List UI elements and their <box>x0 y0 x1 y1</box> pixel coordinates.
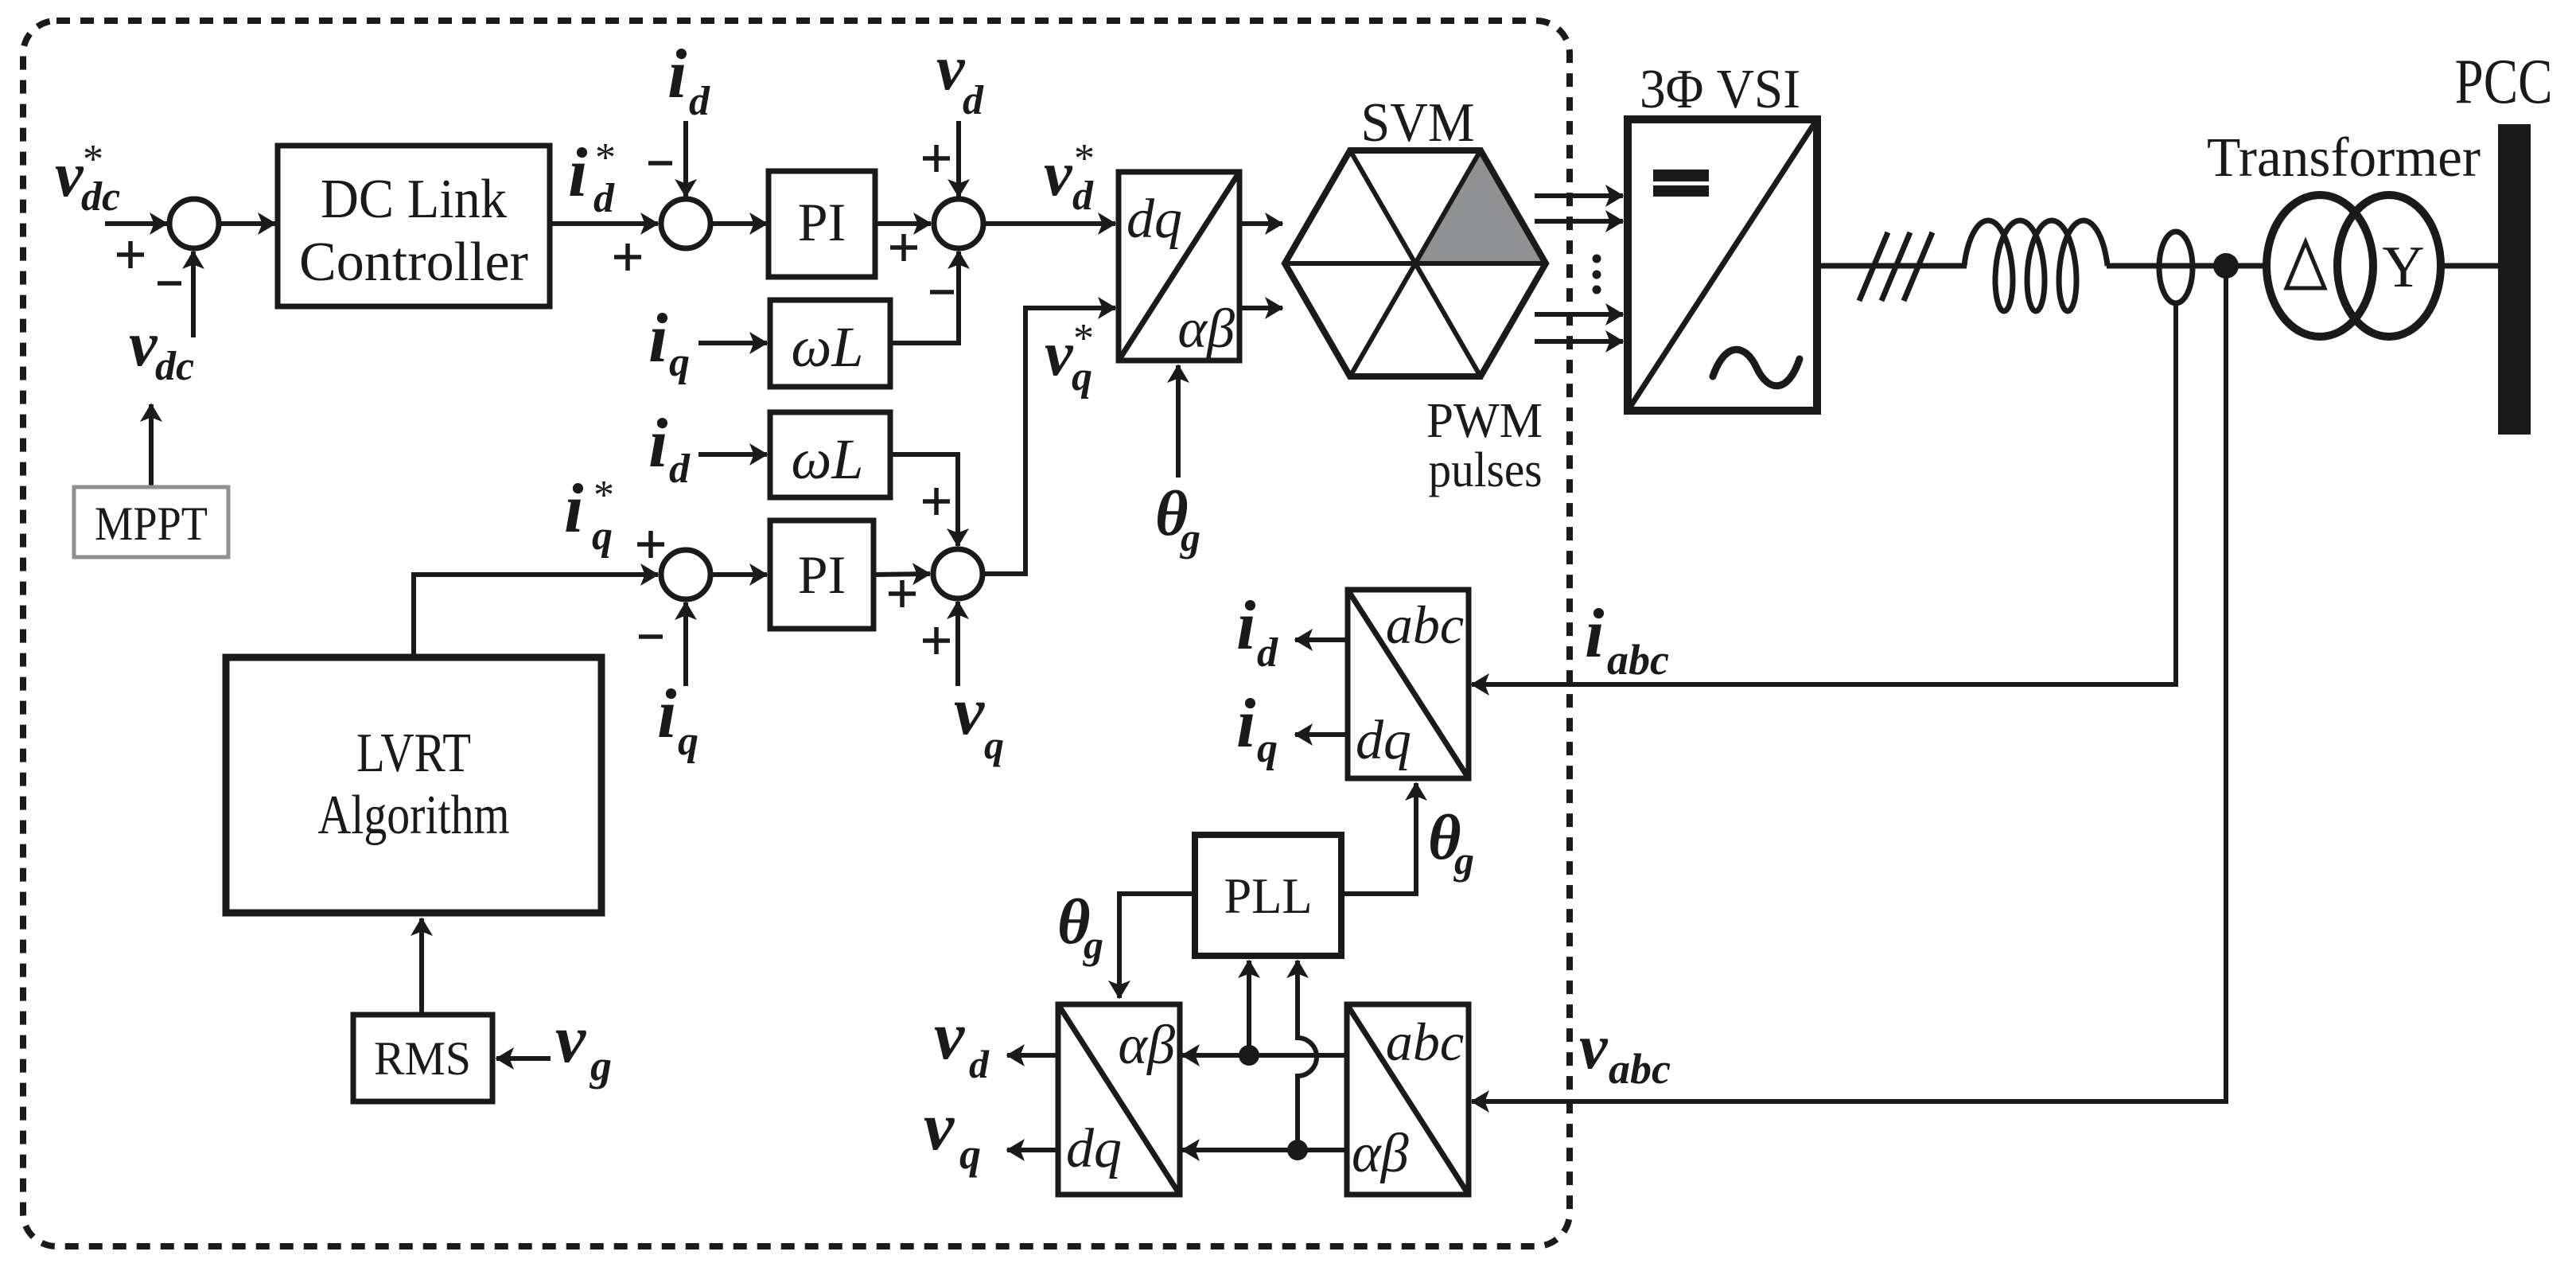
plus sign at S5 wL <box>923 488 950 515</box>
wire ab link top between voltage transforms <box>1182 1053 1347 1058</box>
node junction B (vbeta tap to PLL) <box>1287 1140 1308 1160</box>
wire id into wL2 <box>698 452 767 457</box>
svg-text:i: i <box>657 676 677 753</box>
label vd output <box>934 997 990 1086</box>
label vq output <box>924 1088 981 1178</box>
svg-text:Controller: Controller <box>299 232 528 293</box>
label id output <box>1236 587 1278 676</box>
plus sign at S2 <box>614 244 641 271</box>
block RMS <box>353 1015 492 1101</box>
label v*dc <box>55 137 120 220</box>
svg-text:g: g <box>1453 838 1474 883</box>
svg-text:MPPT: MPPT <box>95 497 208 550</box>
svg-text:i: i <box>564 470 584 548</box>
block wL d-coupling <box>770 412 890 497</box>
minus sign at S2 <box>648 161 672 166</box>
wire iq output of abc/dq <box>1295 732 1348 737</box>
summing node S4 <box>661 550 710 599</box>
svg-text:d: d <box>1257 630 1278 676</box>
svg-text:g: g <box>1083 922 1103 967</box>
wire PLL theta-g to ab/dq transform <box>1119 894 1195 998</box>
minus sign at S1 <box>158 281 181 286</box>
SVM hexagon <box>1285 150 1546 376</box>
svg-text:3Φ VSI: 3Φ VSI <box>1640 59 1800 120</box>
wire S2 to PI <box>712 221 767 226</box>
plus sign at S4 <box>637 531 664 558</box>
svg-text:PI: PI <box>798 192 846 252</box>
plus sign at S5 vq <box>923 627 950 654</box>
svg-text:i: i <box>568 134 588 212</box>
wire vq up into S5 <box>955 602 960 686</box>
svg-text:g: g <box>1180 515 1200 559</box>
label Transformer <box>2207 127 2481 189</box>
svg-text:dq: dq <box>1356 710 1411 771</box>
wire transformer to PCC bus <box>2441 263 2498 269</box>
label iq below S4 <box>657 676 698 764</box>
svg-text:g: g <box>590 1042 612 1090</box>
label id into wL2 <box>648 405 691 492</box>
wire vd down into S3 <box>956 121 961 197</box>
wire DC Link Controller to S2 (i*d) <box>550 221 658 226</box>
block LVRT Algorithm <box>226 657 601 913</box>
svg-text:*: * <box>83 137 103 182</box>
label theta-g below dq/ab <box>1155 479 1200 559</box>
svg-text:*: * <box>595 135 616 181</box>
svg-text:dq: dq <box>1127 189 1182 250</box>
block alpha-beta to dq voltage transform <box>1058 1004 1180 1195</box>
svg-text:PI: PI <box>798 544 846 605</box>
wire wL2 down into S5 <box>890 454 958 546</box>
svg-text:dq: dq <box>1066 1118 1122 1179</box>
svg-text:PLL: PLL <box>1224 867 1313 924</box>
wire vd output <box>1007 1053 1058 1058</box>
inductor coil <box>1964 220 2107 311</box>
summing node S5 <box>933 549 983 598</box>
svg-text:abc: abc <box>1386 1012 1464 1072</box>
svg-text:*: * <box>593 473 614 518</box>
block 3-phase VSI <box>1628 119 1817 411</box>
svg-text:Y: Y <box>2382 235 2424 300</box>
block PLL <box>1195 835 1341 956</box>
label 3-phi VSI <box>1640 59 1800 120</box>
svg-text:pulses: pulses <box>1429 443 1543 497</box>
svg-text:q: q <box>984 723 1004 767</box>
plus sign at S5 input <box>889 580 916 607</box>
svg-text:abc: abc <box>1386 595 1464 655</box>
label theta-g left of PLL <box>1057 887 1103 967</box>
label vdc <box>129 310 194 389</box>
node junction on grid wire (vabc tap) <box>2213 253 2239 279</box>
wire id output of abc/dq <box>1295 637 1348 642</box>
label vd top <box>936 33 984 123</box>
block dq to alpha-beta transform <box>1119 172 1239 361</box>
svg-text:abc: abc <box>1607 636 1669 684</box>
label vg <box>555 1000 612 1090</box>
svg-text:i: i <box>648 300 668 377</box>
wire dq/ab output 1 to SVM <box>1239 221 1282 226</box>
node junction A (valpha tap to PLL) <box>1239 1045 1259 1066</box>
summing node S1 <box>169 199 219 248</box>
svg-text:αβ: αβ <box>1352 1123 1409 1184</box>
wire vabc measurement to abc/ab transform <box>1472 266 2226 1101</box>
transformer wye winding <box>2337 195 2441 337</box>
svg-text:q: q <box>592 513 613 559</box>
svg-text:ωL: ωL <box>792 315 864 379</box>
wire ab link bottom between voltage transforms <box>1182 1148 1347 1152</box>
wire theta-g up into dq/ab transform <box>1176 365 1181 478</box>
wire S4 to PI2 <box>713 572 767 577</box>
svg-text:i: i <box>648 405 668 482</box>
svg-text:q: q <box>678 719 698 764</box>
wire junction B up into PLL with hop <box>1298 961 1317 1150</box>
svg-text:*: * <box>1073 316 1094 361</box>
wire v*dc input to summing node S1 <box>105 221 167 226</box>
plus sign at S3 input <box>890 234 917 261</box>
wire PWM pulse 3 <box>1535 312 1623 317</box>
svg-text:dc: dc <box>155 344 194 389</box>
svg-text:DC Link: DC Link <box>321 169 507 230</box>
svg-text:ωL: ωL <box>792 427 864 491</box>
label iq output <box>1236 685 1278 771</box>
svg-text:Algorithm: Algorithm <box>318 785 510 846</box>
svg-text:v: v <box>954 672 985 749</box>
svg-text:v: v <box>129 310 158 380</box>
svg-text:Transformer: Transformer <box>2207 127 2481 189</box>
wire LVRT to S4 (i*q) <box>414 575 658 657</box>
wire S3 to dq/ab transform (v*d) <box>985 221 1115 226</box>
wire PLL theta-g to abc/dq transform <box>1341 783 1416 894</box>
svg-text:αβ: αβ <box>1118 1015 1175 1076</box>
minus sign at S4 <box>639 634 663 639</box>
transformer delta winding <box>2267 195 2373 337</box>
block wL q-coupling <box>770 300 890 387</box>
block abc to alpha-beta voltage transform <box>1347 1004 1469 1195</box>
svg-text:q: q <box>669 340 690 385</box>
block MPPT <box>74 487 228 557</box>
wire id down into S2 <box>683 121 688 197</box>
svg-text:v: v <box>924 1088 955 1164</box>
label i*q <box>564 470 614 559</box>
label theta-g right of PLL <box>1428 803 1474 883</box>
ellipsis dots between PWM pulses <box>1593 255 1601 294</box>
wire PI2 to S5 <box>874 574 930 575</box>
svg-text:v: v <box>555 1000 586 1077</box>
svg-text:αβ: αβ <box>1177 298 1235 360</box>
svg-text:i: i <box>1585 595 1605 672</box>
label vabc <box>1579 1012 1671 1093</box>
svg-text:v: v <box>1579 1012 1609 1082</box>
minus sign at S3 <box>930 290 954 294</box>
svg-text:v: v <box>1044 139 1073 209</box>
block PI q-axis <box>770 520 874 629</box>
svg-text:v: v <box>936 33 966 103</box>
wire iabc measurement to abc/dq transform <box>1472 302 2176 684</box>
label id top <box>667 36 710 124</box>
svg-text:d: d <box>963 78 984 123</box>
wire iq into wL1 <box>698 341 767 345</box>
svg-text:i: i <box>667 36 687 113</box>
wire vq output <box>1007 1148 1058 1152</box>
svg-text:SVM: SVM <box>1361 92 1475 154</box>
label v*q <box>1045 316 1094 400</box>
label PCC <box>2455 47 2553 117</box>
PCC bus bar <box>2498 124 2531 435</box>
current sensor ellipse <box>2159 232 2193 303</box>
svg-text:d: d <box>593 176 615 221</box>
plus sign at S3 vd <box>923 145 950 172</box>
svg-text:q: q <box>959 1130 981 1178</box>
svg-text:d: d <box>689 79 710 124</box>
plus sign at S1 <box>117 241 144 268</box>
svg-text:i: i <box>1236 587 1256 665</box>
wire vg into RMS <box>496 1056 551 1061</box>
wire PWM pulse 2 <box>1535 219 1623 224</box>
block DC Link Controller <box>278 146 550 306</box>
svg-text:d: d <box>969 1042 990 1086</box>
wire dq/ab output 2 to SVM <box>1239 306 1282 310</box>
wire PI to S3 <box>875 221 931 226</box>
label iq into wL1 <box>648 300 690 385</box>
wire iq up into S4 <box>683 602 688 686</box>
svg-text:q: q <box>1257 726 1278 771</box>
wire PWM pulse 1 <box>1535 193 1623 198</box>
wire S1 to DC Link Controller <box>220 221 275 226</box>
wire vdc up into S1 <box>191 251 196 337</box>
label SVM <box>1361 92 1475 154</box>
svg-text:PWM: PWM <box>1426 394 1543 448</box>
label v*d <box>1044 136 1095 219</box>
summing node S3 <box>934 199 983 248</box>
svg-text:v: v <box>934 997 965 1074</box>
svg-text:v: v <box>1045 319 1074 389</box>
block abc to dq current transform <box>1348 590 1469 778</box>
svg-text:v: v <box>55 140 84 210</box>
wire S5 to dq/ab transform (v*q) <box>984 308 1115 574</box>
svg-text:i: i <box>1236 685 1256 762</box>
dashed controller boundary <box>23 21 1570 1246</box>
svg-text:LVRT: LVRT <box>356 723 471 784</box>
wire RMS to LVRT <box>419 918 424 1015</box>
wire PWM pulse 4 <box>1535 339 1623 344</box>
three-phase slashes <box>1859 232 1932 301</box>
label i*d <box>568 134 616 221</box>
svg-text:PCC: PCC <box>2455 47 2553 117</box>
block PI d-axis <box>769 171 875 277</box>
svg-text:abc: abc <box>1609 1045 1671 1093</box>
wire VSI output to inductor <box>1817 263 1967 269</box>
svg-text:d: d <box>669 446 691 492</box>
svg-text:RMS: RMS <box>374 1032 471 1085</box>
svg-text:*: * <box>1074 136 1095 181</box>
label PWM pulses <box>1426 394 1543 497</box>
summing node S2 <box>661 199 710 248</box>
wire wL1 up into S3 <box>890 251 959 343</box>
wire junction A up into PLL <box>1247 961 1251 1055</box>
wire inductor to transformer <box>2107 263 2269 269</box>
label vq below S5 <box>954 672 1004 767</box>
wire MPPT up to vdc <box>149 404 154 485</box>
label iabc <box>1585 595 1669 684</box>
